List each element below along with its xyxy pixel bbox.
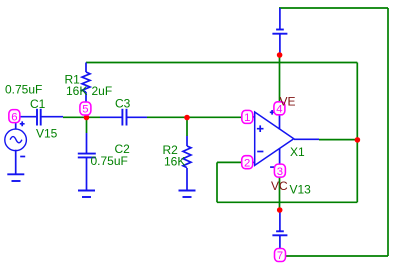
node 6: [9, 110, 20, 124]
svg-text:3: 3: [277, 166, 283, 178]
wire VC supply vertical: [279, 176, 281, 210]
capacitor C3: [100, 109, 147, 126]
junction C3-R2 rail: [184, 115, 190, 121]
node 7: [275, 249, 286, 263]
wire C3 to node 1: [147, 116, 243, 118]
ground (V15): [7, 174, 24, 181]
svg-text:2uF: 2uF: [92, 84, 113, 98]
svg-text:7: 7: [277, 250, 283, 262]
wire op-amp output: [319, 139, 357, 141]
junction op-amp output: [355, 137, 361, 143]
wire output right vertical: [356, 63, 358, 203]
node 3: [274, 164, 285, 178]
ground (R2): [179, 191, 196, 198]
wire C1 to node 5: [63, 116, 100, 118]
svg-text:2: 2: [244, 157, 250, 169]
capacitor C2: [78, 133, 96, 191]
op-amp X1: [253, 110, 319, 167]
resistor R1: [82, 63, 90, 104]
resistor R2: [183, 136, 191, 191]
wire feedback top horizontal: [86, 62, 357, 64]
wire inverting input loop vertical: [216, 162, 218, 202]
svg-text:VC: VC: [271, 179, 288, 193]
node 4: [274, 102, 285, 116]
wire VE supply vertical: [279, 55, 281, 104]
svg-text:C3: C3: [115, 97, 131, 111]
node 5: [80, 102, 91, 116]
junction VC battery: [277, 207, 283, 213]
battery V13 VC supply: [272, 210, 287, 250]
svg-text:VE: VE: [280, 94, 296, 108]
wire to node 2: [217, 161, 243, 163]
svg-text:0.75uF: 0.75uF: [5, 83, 42, 97]
svg-text:16K: 16K: [66, 84, 87, 98]
wire right side vertical: [387, 8, 389, 256]
svg-text:C1: C1: [30, 97, 46, 111]
node 1: [242, 110, 253, 124]
wire top supply horizontal: [279, 7, 388, 9]
node 2: [242, 156, 253, 170]
capacitor C1: [37, 109, 63, 126]
wire feedback bottom horizontal: [217, 201, 357, 203]
wire node 5 down to C2: [86, 117, 88, 133]
wire bottom from node 7: [285, 255, 388, 257]
svg-text:16K: 16K: [164, 154, 185, 168]
svg-text:X1: X1: [290, 145, 305, 159]
voltage source V15: [5, 117, 36, 175]
wire junction down to R2: [186, 117, 188, 136]
junction node5-C1 rail: [84, 115, 90, 121]
svg-text:6: 6: [11, 111, 17, 123]
junction VE battery: [277, 52, 283, 58]
battery VE supply: [272, 8, 287, 55]
svg-text:0.75uF: 0.75uF: [91, 154, 128, 168]
svg-text:1: 1: [244, 112, 250, 124]
ground (C2): [78, 191, 95, 198]
svg-text:V15: V15: [36, 127, 58, 141]
svg-text:V13: V13: [290, 182, 312, 196]
svg-text:5: 5: [82, 104, 88, 116]
